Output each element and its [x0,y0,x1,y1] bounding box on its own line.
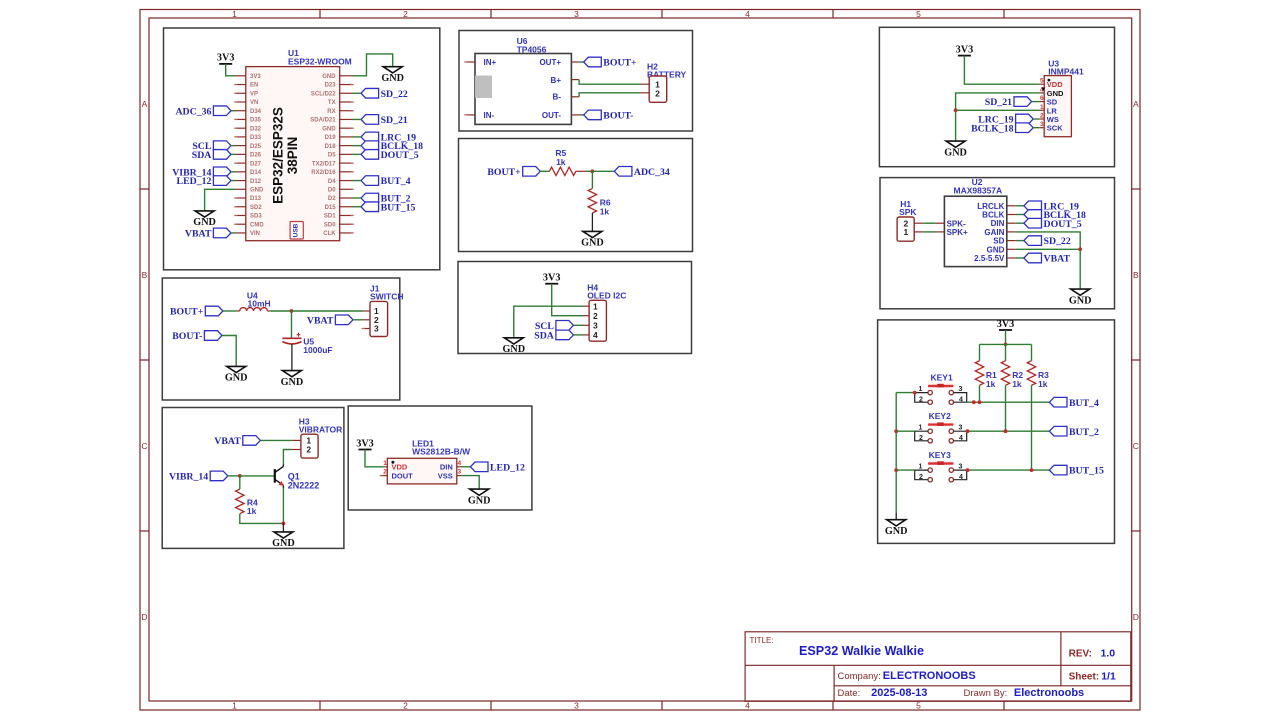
svg-text:3: 3 [457,469,461,476]
svg-text:2: 2 [919,396,923,403]
svg-text:SD0: SD0 [324,222,336,228]
svg-text:BOUT+: BOUT+ [487,167,521,178]
net port SD_22 (U1) [353,88,408,99]
sheet border frame [140,9,1140,711]
ground (U3) [944,141,967,158]
svg-text:1.0: 1.0 [1101,647,1116,659]
wire U4 to node [270,310,291,312]
block keys [878,320,1115,544]
wire keys common rail [895,393,897,513]
net port VIBR_14 [172,167,235,178]
svg-text:VBAT: VBAT [307,315,334,326]
svg-text:KEY2: KEY2 [929,411,951,421]
U6 pin B- [571,96,579,98]
svg-text:1k: 1k [1038,379,1048,389]
wire U1 GND left [205,189,236,211]
svg-text:ESP32 Walkie Walkie: ESP32 Walkie Walkie [799,644,924,658]
svg-text:3V3: 3V3 [250,74,261,80]
U6 pin B+ [571,79,579,81]
svg-text:GND: GND [272,538,295,549]
svg-text:1k: 1k [247,506,257,516]
svg-text:1: 1 [919,425,923,432]
svg-text:4: 4 [745,9,750,19]
svg-text:BOUT+: BOUT+ [170,307,204,318]
svg-text:3: 3 [958,425,962,432]
svg-text:2: 2 [593,311,598,321]
svg-text:GAIN: GAIN [984,228,1004,237]
block H3 vibrator [162,408,344,549]
IC U2 label [954,177,1003,195]
node Q1 emitter junction [282,522,286,526]
ground (divider) [581,231,604,248]
svg-text:B+: B+ [551,76,562,85]
svg-text:1000uF: 1000uF [303,345,332,355]
svg-text:LRCLK: LRCLK [977,202,1004,211]
wire common to KEY1 [896,392,915,394]
svg-text:BOUT+: BOUT+ [603,58,637,69]
op-amp U1 label [288,48,352,66]
svg-text:GND: GND [502,344,525,355]
svg-text:1: 1 [383,460,387,467]
svg-text:TX2/D17: TX2/D17 [312,161,336,167]
svg-text:1: 1 [919,386,923,393]
svg-text:VBAT: VBAT [185,229,212,240]
svg-text:GND: GND [468,495,491,506]
ground (U5) [281,371,304,388]
svg-text:GND: GND [281,377,304,388]
wire R4 to emitter node [240,514,284,524]
svg-text:1: 1 [593,301,598,311]
svg-text:1/1: 1/1 [1101,670,1116,682]
svg-text:3V3: 3V3 [217,53,235,64]
wire 3V3 to LED1 VDD [365,450,384,467]
svg-text:Date:: Date: [838,688,861,699]
svg-text:GND: GND [322,74,336,80]
resistor R3 [1027,344,1049,389]
net port LRC_19 (U1) [353,132,417,143]
svg-text:Electronoobs: Electronoobs [1014,687,1084,699]
LED1 pin DIN [457,466,462,468]
title block text [750,636,1116,699]
svg-text:IN+: IN+ [484,58,497,67]
svg-text:SD_22: SD_22 [1044,236,1071,247]
svg-text:D33: D33 [250,135,262,141]
svg-text:Drawn By:: Drawn By: [964,688,1008,699]
net port BUT_15 (U1) [353,202,416,213]
svg-text:4: 4 [959,435,963,442]
svg-text:SD3: SD3 [250,214,262,220]
svg-text:IN-: IN- [484,111,495,120]
wire U1 GND top-right [353,54,393,76]
ground (BOUT-) [225,366,248,383]
connector H1 SPK [897,217,923,241]
svg-text:2: 2 [383,469,387,476]
node KEY1 left junction [913,391,917,395]
wire resistor bus [980,343,1032,345]
net port BCLK_18 (U3) [971,123,1039,134]
svg-text:D35: D35 [250,118,262,124]
svg-text:2: 2 [403,9,408,19]
U6 pin IN+ [464,61,475,63]
connector J1 SWITCH [362,301,388,336]
chip U1 ESP32-WROOM body [246,67,340,241]
svg-text:VDD: VDD [1047,80,1063,89]
svg-text:2: 2 [403,701,408,711]
wire 3V3 to U3 VDD [964,56,1039,85]
switch KEY1 [915,372,967,404]
net port BUT_4 (keys) [1049,397,1099,408]
wire node down to R6 [591,171,593,188]
net port SDA (U1) [192,150,236,161]
ground (LED1) [468,489,491,506]
svg-text:BUT_2: BUT_2 [1069,427,1099,438]
wire node to ground (U2) [1079,249,1081,289]
wire 3V3 to resistor bus [1005,330,1007,344]
svg-text:BUT_15: BUT_15 [1069,466,1104,477]
net port SD_21 (U1) [353,115,408,126]
resistor R2 [1001,344,1023,389]
svg-text:D5: D5 [328,153,336,159]
IC U3 label [1048,59,1084,77]
svg-text:D34: D34 [250,109,262,115]
block U2 MAX98357A [880,178,1115,309]
svg-text:4: 4 [959,474,963,481]
net port BOUT+ (U6) [580,57,637,68]
ground (Q1) [272,532,295,549]
ground (top right of U1) [381,67,404,84]
block R5 R6 divider [459,139,693,252]
svg-text:D25: D25 [250,144,262,150]
svg-text:C: C [1133,441,1139,451]
net port BUT_2 (U1) [353,193,411,204]
resistor R5 [549,148,586,175]
svg-text:B-: B- [553,93,562,102]
svg-text:3V3: 3V3 [356,438,374,449]
svg-text:GND: GND [581,238,604,249]
svg-text:5: 5 [916,9,921,19]
svg-text:VBAT: VBAT [1044,254,1071,265]
svg-text:3: 3 [958,386,962,393]
svg-text:OLED I2C: OLED I2C [587,291,626,301]
svg-text:1: 1 [232,701,237,711]
svg-text:D: D [1133,612,1139,622]
svg-text:OUT+: OUT+ [539,58,561,67]
svg-text:DIN: DIN [991,219,1005,228]
wire 3V3 to U1 pin 3V3 [226,64,236,76]
svg-text:VIBR_14: VIBR_14 [169,472,208,483]
svg-text:SD_22: SD_22 [381,89,408,100]
power flag 3V3 (LED1) [356,438,374,449]
wire B- to battery [579,93,640,97]
svg-text:VIN: VIN [250,231,260,237]
svg-text:USB: USB [293,223,300,237]
svg-text:3: 3 [593,321,598,331]
svg-text:VBAT: VBAT [214,436,241,447]
block U6 TP4056 [459,31,693,132]
wire rail to ground [895,513,897,520]
svg-text:LED_12: LED_12 [177,176,212,187]
svg-text:VIBRATOR: VIBRATOR [299,425,343,435]
net port SD_22 (U2) [1016,236,1071,247]
wire KEY2 to BUT_2 [967,430,1050,432]
svg-text:A: A [1133,99,1139,109]
node U3 LR junction [954,108,958,112]
IC LED1 label [412,438,471,456]
svg-text:SD: SD [1047,98,1058,107]
net port VBAT (H3) [214,436,291,447]
svg-text:1k: 1k [986,379,996,389]
node filter junction [290,309,294,313]
block U1 ESP32 [164,28,440,270]
svg-text:GND: GND [250,187,264,193]
IC U2 MAX98357A body [935,196,1015,266]
net port VBAT (U1) [185,228,236,239]
svg-text:BUT_4: BUT_4 [1069,398,1099,409]
svg-text:GND: GND [944,147,967,158]
net port SCL (OLED) [535,321,584,332]
svg-text:GND: GND [322,126,336,132]
svg-text:BOUT-: BOUT- [603,111,633,122]
svg-text:GND: GND [1047,89,1064,98]
svg-text:ADC_34: ADC_34 [634,167,670,178]
wire R6 to ground [591,213,593,231]
wire GAIN to ground net [1016,232,1080,249]
node U2 ground junction [1078,247,1082,251]
svg-text:B: B [1133,270,1139,280]
wire VSS to ground [462,476,480,490]
svg-text:GND: GND [381,73,404,84]
U6 pin OUT+ [571,61,580,63]
block H4 OLED [458,262,692,354]
connector H4 label [587,282,626,300]
ground (OLED) [502,338,525,355]
svg-text:D13: D13 [250,196,262,202]
svg-text:38PIN: 38PIN [285,137,300,175]
net port DOUT_5 (U1) [353,150,419,161]
svg-text:BUT_4: BUT_4 [381,176,411,187]
svg-text:D15: D15 [325,205,337,211]
svg-text:VDD: VDD [392,463,408,472]
svg-text:SD: SD [993,237,1004,246]
svg-text:GND: GND [193,217,216,228]
connector J1 label [370,283,404,301]
LED1 pin VSS [457,475,462,477]
svg-text:4: 4 [457,460,461,467]
svg-text:SD_21: SD_21 [985,97,1012,108]
svg-text:TITLE:: TITLE: [750,636,774,645]
svg-text:D23: D23 [325,83,337,89]
wire DIN to LED_12 [462,466,470,468]
svg-text:DOUT: DOUT [392,472,414,481]
svg-text:2: 2 [655,88,660,98]
svg-text:BCLK_18: BCLK_18 [971,123,1014,134]
svg-text:CMD: CMD [250,222,264,228]
svg-text:EN: EN [250,83,258,89]
svg-text:Sheet:: Sheet: [1069,671,1100,682]
svg-text:SPK: SPK [899,207,917,217]
svg-text:1: 1 [919,464,923,471]
transistor Q1 2N2222 [275,465,319,491]
svg-text:2025-08-13: 2025-08-13 [871,687,927,699]
svg-text:4: 4 [959,396,963,403]
connector H3 VIBRATOR [291,434,318,458]
svg-text:TX: TX [328,100,336,106]
net port BOUT+ (divider) [487,167,549,178]
svg-text:SCL/D22: SCL/D22 [311,91,336,97]
svg-text:D: D [141,612,147,622]
net port BUT_2 (keys) [1049,426,1099,437]
svg-text:10mH: 10mH [248,299,271,309]
power flag 3V3 (U3) [956,44,974,55]
svg-text:2N2222: 2N2222 [288,480,320,490]
wire node to ADC_34 [592,170,614,172]
inductor U4 10mH [237,291,271,311]
wire KEY3 to BUT_15 [967,469,1050,471]
node divider junction [591,169,595,173]
wire H1 pin2 to SPK- [923,222,935,224]
node 3V3 bus junction [1004,343,1008,347]
svg-text:D0: D0 [328,187,336,193]
IC U6 TP4056 body [475,54,571,125]
svg-text:D2: D2 [328,196,336,202]
svg-text:2.5-5.5V: 2.5-5.5V [974,254,1005,263]
svg-text:2: 2 [306,445,311,455]
svg-text:3V3: 3V3 [997,319,1015,330]
U6 pin OUT- [571,114,580,116]
wire H1 pin1 to SPK+ [923,231,935,233]
svg-text:1: 1 [232,9,237,19]
svg-text:A: A [142,99,148,109]
svg-text:SD_21: SD_21 [381,115,408,126]
svg-text:D4: D4 [328,179,336,185]
svg-text:5: 5 [916,701,921,711]
wire KEY1 to BUT_4 [967,401,1050,403]
svg-text:VSS: VSS [438,472,453,481]
net port VBAT (U2) [1016,253,1071,264]
LED1 pin DOUT [380,475,388,477]
net port BUT_4 (U1) [353,176,411,187]
net port BCLK_18 (U1) [353,141,424,152]
wire U3 LR [956,109,1040,111]
svg-text:D14: D14 [250,170,262,176]
net port DOUT_5 (U2) [1016,218,1082,229]
net port BOUT- (filter) [172,331,222,342]
svg-text:SCK: SCK [1047,124,1063,133]
svg-text:1: 1 [904,227,909,237]
svg-text:3V3: 3V3 [956,44,974,55]
svg-text:D12: D12 [250,179,262,185]
net port LED_12 (LED1) [470,462,525,473]
capacitor U5 1000uF [282,333,332,355]
wire R5 to node [586,170,592,172]
svg-text:BCLK: BCLK [982,211,1004,220]
IC U3 INMP441 body [1039,76,1071,137]
wire emitter node to ground [282,523,284,532]
svg-text:MAX98357A: MAX98357A [954,185,1003,195]
svg-text:SPK-: SPK- [947,219,966,228]
svg-text:GND: GND [225,373,248,384]
net port ADC_34 [614,167,670,178]
connector H3 label [299,416,343,434]
net port VBAT (J1) [307,315,363,326]
connector H2 label [647,61,687,79]
resistor R4 [236,476,258,516]
block U3 INMP441 [879,27,1114,166]
wire common to KEY2 [896,430,915,432]
ground (keys) [885,520,908,537]
connector H1 label [899,199,917,217]
resistor R6 [588,188,611,216]
wire H3 pin2 to Q1 collector [283,450,291,465]
svg-text:SDA: SDA [534,331,554,342]
svg-text:KEY1: KEY1 [931,372,953,382]
svg-text:LR: LR [1047,106,1058,115]
wire R2 to BUT_2 row [1005,385,1007,431]
svg-text:DOUT_5: DOUT_5 [381,150,419,161]
svg-text:2: 2 [919,474,923,481]
svg-text:1k: 1k [1012,379,1022,389]
svg-text:SDA: SDA [192,150,212,161]
title block frame [745,632,1131,702]
svg-text:WS2812B-B/W: WS2812B-B/W [412,447,471,457]
IC U6 label [517,36,547,54]
wire U3 GND to ground [956,93,1040,141]
svg-text:SD2: SD2 [250,205,262,211]
svg-text:3: 3 [574,701,579,711]
ground (left of U1) [193,211,216,228]
net port LED_12 (U1) [177,176,236,187]
power flag 3V3 (OLED) [543,273,561,284]
svg-text:RX: RX [327,109,335,115]
svg-text:D18: D18 [325,144,337,150]
net port BUT_15 (keys) [1049,465,1104,476]
svg-text:KEY3: KEY3 [929,450,951,460]
svg-text:SPK+: SPK+ [947,228,968,237]
svg-text:VP: VP [250,91,258,97]
svg-text:ELECTRONOOBS: ELECTRONOOBS [883,670,976,682]
connector H2 BATTERY [640,76,666,102]
net port SDA (OLED) [534,330,583,341]
svg-text:2: 2 [919,435,923,442]
wire U5 to ground [291,344,293,371]
svg-text:GND: GND [885,526,908,537]
svg-text:C: C [141,441,147,451]
wire base junction to Q1 [240,475,274,477]
node KEY3 left junction [894,468,898,472]
wire node to J1 pin1 [292,310,364,312]
U1 unconnected pin marks [234,85,354,233]
wire common to KEY3 [896,469,915,471]
node KEY1 output junction [972,400,982,404]
wire node down to U5 [291,311,293,338]
svg-text:D26: D26 [250,153,262,159]
svg-text:WS: WS [1047,115,1059,124]
svg-text:Company:: Company: [838,671,881,682]
svg-text:CLK: CLK [323,231,336,237]
svg-text:GND: GND [987,245,1005,254]
svg-text:GND: GND [1069,295,1092,306]
svg-text:DOUT_5: DOUT_5 [1044,219,1082,230]
svg-text:3V3: 3V3 [543,273,561,284]
svg-text:D19: D19 [325,135,337,141]
svg-text:3: 3 [374,324,379,334]
svg-text:LED_12: LED_12 [490,462,525,473]
net port SCL (U1) [192,141,235,152]
wire Q1 emitter down [282,488,284,524]
node Q1 base junction [238,474,242,478]
svg-text:REV:: REV: [1069,648,1092,659]
svg-text:ADC_36: ADC_36 [175,106,211,117]
